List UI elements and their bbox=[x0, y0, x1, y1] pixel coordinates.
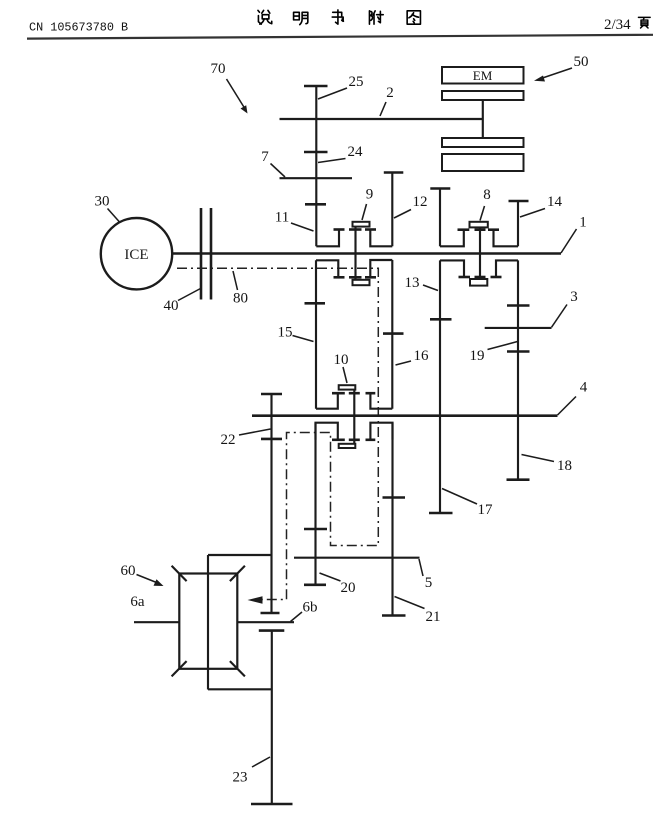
gear 16 vertical bbox=[391, 260, 393, 409]
header title glyph 图 bbox=[407, 11, 420, 24]
label 7 bbox=[261, 149, 285, 177]
EM rotor bar bbox=[442, 91, 524, 100]
synchronizer 10 sleeve lower bbox=[339, 444, 356, 448]
label 8 bbox=[480, 187, 491, 221]
gear 23 bottom cap bbox=[251, 803, 293, 806]
engine ICE 30 bbox=[101, 218, 172, 289]
label 6b bbox=[291, 600, 318, 622]
svg-text:22: 22 bbox=[221, 432, 236, 448]
label 22 bbox=[221, 429, 271, 448]
label 15 bbox=[278, 325, 314, 342]
gear 7 disc line bbox=[280, 177, 353, 179]
label 21 bbox=[395, 597, 441, 626]
label 1 bbox=[561, 215, 587, 254]
label 13 bbox=[405, 275, 439, 291]
differential bevel mark bottom-right bbox=[230, 661, 245, 676]
svg-text:9: 9 bbox=[366, 187, 374, 203]
svg-text:1: 1 bbox=[579, 215, 587, 231]
gear 19 tick bbox=[507, 350, 530, 353]
label 25 bbox=[318, 74, 364, 99]
synchronizer 9 sleeve upper bbox=[353, 222, 370, 227]
synchronizer 9 hub vertical bbox=[349, 227, 362, 281]
gear 5 tick bbox=[383, 496, 406, 499]
header page glyph 页 bbox=[638, 17, 650, 28]
output shaft 4 bbox=[252, 414, 558, 417]
gear 20 vertical bbox=[314, 423, 316, 585]
svg-text:18: 18 bbox=[557, 458, 572, 474]
svg-text:5: 5 bbox=[425, 575, 433, 591]
countershaft column (gears 25/24/7/11) bbox=[315, 86, 317, 246]
svg-text:2/34: 2/34 bbox=[604, 17, 631, 33]
gear 15 box top edge left bbox=[316, 260, 338, 277]
gear 13 upper line bbox=[430, 189, 450, 247]
svg-text:6b: 6b bbox=[303, 600, 318, 616]
gear 20 claw below shaft 4 bbox=[316, 423, 338, 440]
clutch 40 plate right bbox=[210, 208, 213, 300]
header title glyph 附 bbox=[369, 11, 383, 24]
gear 14 line bbox=[509, 201, 529, 246]
gear 20 tick bbox=[304, 528, 327, 531]
label 80 bbox=[233, 271, 248, 307]
gear 22 column bbox=[270, 394, 272, 613]
svg-text:60: 60 bbox=[121, 563, 136, 579]
column 18 bottom cap bbox=[507, 478, 530, 481]
power flow arrowhead bbox=[248, 596, 263, 603]
svg-text:16: 16 bbox=[414, 348, 430, 364]
gear 5 claw below shaft 4 bbox=[370, 423, 392, 440]
svg-text:8: 8 bbox=[483, 187, 491, 203]
label 24 bbox=[318, 144, 363, 163]
synchronizer 9 right claw bbox=[365, 230, 392, 247]
axle shaft 6a bbox=[134, 621, 179, 623]
EM gear bar upper bbox=[442, 138, 524, 147]
svg-text:80: 80 bbox=[233, 291, 248, 307]
gear 20 bottom cap bbox=[304, 583, 326, 586]
synchronizer 10 right claw cap bbox=[366, 392, 376, 395]
svg-text:4: 4 bbox=[580, 380, 588, 396]
gear 11 tick bbox=[305, 203, 326, 206]
synchronizer 10 hub vertical bbox=[349, 390, 360, 444]
svg-text:15: 15 bbox=[278, 325, 293, 341]
label 30 bbox=[95, 194, 120, 223]
header rule bbox=[27, 35, 653, 39]
final drive gear 6b line bbox=[237, 621, 294, 623]
differential 60 case bbox=[179, 574, 237, 669]
differential 60 pinion shaft vertical bbox=[207, 555, 209, 690]
svg-text:70: 70 bbox=[211, 61, 226, 77]
gear 15 box bottom edge bbox=[316, 393, 338, 409]
gear 23 shaft vertical bbox=[271, 631, 273, 804]
gear 5 vertical bbox=[391, 423, 393, 616]
gear 13 tick bbox=[430, 318, 452, 321]
synchronizer 8 sleeve lower bbox=[470, 279, 487, 286]
gear 5 mesh line bbox=[294, 557, 420, 559]
label 60 with arrow bbox=[121, 563, 164, 586]
clutch 40 plate left bbox=[200, 208, 203, 300]
label 19 bbox=[470, 342, 518, 365]
differential bevel mark top-right bbox=[230, 566, 245, 581]
svg-text:19: 19 bbox=[470, 348, 485, 364]
synchronizer 8 hub vertical bbox=[475, 228, 486, 280]
label 2 bbox=[380, 85, 394, 116]
svg-text:7: 7 bbox=[261, 149, 269, 165]
input shaft 1 bbox=[172, 252, 561, 255]
header title glyph 说 bbox=[258, 10, 272, 24]
svg-text:3: 3 bbox=[570, 289, 578, 305]
gear 23 shaft cap upper bbox=[259, 629, 285, 632]
svg-text:CN 105673780 B: CN 105673780 B bbox=[29, 21, 128, 35]
header title glyph 书 bbox=[332, 10, 343, 24]
svg-text:17: 17 bbox=[478, 502, 494, 518]
header page number 2/34 bbox=[604, 17, 631, 33]
header title glyph 明 bbox=[294, 12, 308, 24]
svg-text:50: 50 bbox=[574, 54, 589, 70]
gear 12 line bbox=[384, 173, 404, 247]
synchronizer 8 right claw bbox=[488, 230, 518, 247]
gear 22 bottom cap bbox=[261, 612, 280, 615]
gear 16 top edge bbox=[370, 260, 392, 277]
label 4 bbox=[558, 380, 588, 416]
gear 22 tick bbox=[261, 438, 282, 441]
label 70 with arrow bbox=[211, 61, 248, 114]
gear 13 lower vertical bbox=[440, 260, 470, 513]
gear 22 top cap bbox=[261, 393, 282, 396]
gear 5 claw cap bbox=[366, 438, 376, 441]
label 5 bbox=[419, 559, 432, 591]
label 9 bbox=[362, 187, 373, 221]
axis dash-dot line 80 power path bbox=[177, 268, 378, 599]
gear 15 tick bbox=[305, 302, 326, 305]
synchronizer 10 sleeve upper bbox=[339, 385, 356, 389]
synchronizer 8 left claw bbox=[440, 230, 469, 247]
gear 15 vertical bbox=[315, 260, 317, 408]
gear 16 claw cap bbox=[365, 276, 376, 279]
label 10 bbox=[334, 352, 349, 383]
svg-text:10: 10 bbox=[334, 352, 349, 368]
svg-text:12: 12 bbox=[413, 194, 428, 210]
synchronizer 10 left claw cap bbox=[332, 392, 345, 395]
gear 20 claw cap bbox=[332, 438, 345, 441]
synchronizer 9 sleeve lower bbox=[353, 280, 370, 285]
EM rotor shaft vertical bbox=[482, 100, 484, 138]
column 18/19 vertical bbox=[517, 260, 519, 479]
differential bevel mark bottom-left bbox=[172, 661, 187, 676]
gear 16 tick bbox=[383, 332, 404, 335]
label 50 with arrow bbox=[534, 54, 589, 82]
label 18 bbox=[522, 455, 573, 475]
svg-text:20: 20 bbox=[341, 580, 356, 596]
electric machine EM 50: stator box bbox=[442, 67, 524, 84]
EM gear bar lower bbox=[442, 154, 524, 171]
label 6a bbox=[130, 594, 145, 610]
label 14 bbox=[520, 194, 563, 217]
label 40 bbox=[164, 289, 201, 315]
gear 15 claw cap bbox=[334, 276, 345, 279]
column tick upper bbox=[507, 304, 530, 307]
svg-text:11: 11 bbox=[275, 210, 289, 226]
gear 16 box bottom edge bbox=[370, 393, 392, 409]
svg-text:40: 40 bbox=[164, 298, 179, 314]
differential bevel mark top-left bbox=[172, 566, 187, 581]
label 11 bbox=[275, 210, 314, 232]
gear 13 bottom cap bbox=[429, 512, 453, 515]
label 12 bbox=[394, 194, 428, 218]
gear 5 bottom cap bbox=[382, 614, 406, 617]
synchronizer 9 left claw bbox=[316, 230, 344, 247]
label 16 bbox=[396, 348, 430, 365]
gear 25 cap bbox=[304, 85, 328, 88]
label 20 bbox=[320, 573, 356, 596]
differential output link bottom bbox=[208, 688, 272, 690]
svg-text:14: 14 bbox=[547, 194, 563, 210]
svg-text:ICE: ICE bbox=[124, 247, 148, 263]
synchronizer 8 sleeve upper bbox=[470, 222, 488, 228]
differential 60 carrier link top bbox=[208, 554, 272, 556]
label 3 bbox=[552, 289, 578, 327]
svg-text:23: 23 bbox=[233, 770, 248, 786]
gear 24 tick bbox=[304, 151, 328, 154]
svg-text:EM: EM bbox=[473, 68, 493, 83]
label 17 bbox=[442, 489, 493, 519]
label 23 bbox=[233, 757, 271, 786]
svg-text:25: 25 bbox=[349, 74, 364, 90]
svg-text:21: 21 bbox=[426, 609, 441, 625]
gear 3 disc line bbox=[485, 327, 552, 329]
svg-text:6a: 6a bbox=[130, 594, 145, 610]
svg-text:2: 2 bbox=[386, 85, 394, 101]
header left text CN 105673780 B bbox=[29, 21, 128, 35]
svg-text:13: 13 bbox=[405, 275, 420, 291]
svg-text:24: 24 bbox=[348, 144, 364, 160]
svg-text:30: 30 bbox=[95, 194, 110, 210]
shaft 2 bbox=[280, 118, 484, 120]
column 18/19 right claw lower bbox=[491, 260, 519, 277]
